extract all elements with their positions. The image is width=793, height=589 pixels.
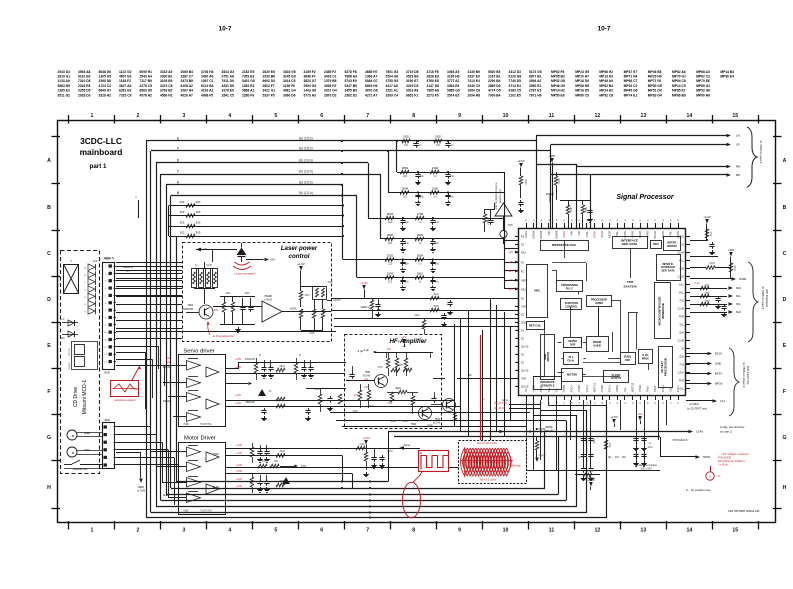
svg-text:616 mV AC 1V/div: 616 mV AC 1V/div (477, 442, 498, 445)
svg-text:+33V: +33V (728, 248, 735, 252)
svg-text:2X2: 2X2 (180, 200, 185, 204)
svg-text:7310 D5: 7310 D5 (78, 79, 91, 83)
svg-text:B: B (47, 205, 51, 211)
svg-text:+4.8V: +4.8V (235, 402, 242, 405)
svg-text:8: 8 (412, 113, 415, 119)
svg-text:TEST: TEST (653, 385, 657, 392)
svg-text:RN: RN (736, 165, 740, 169)
svg-text:3014 C5: 3014 C5 (283, 79, 296, 83)
svg-text:4159 F2: 4159 F2 (304, 70, 316, 74)
svg-text:MUTE: MUTE (661, 231, 665, 239)
svg-text:MP45 G6: MP45 G6 (624, 89, 638, 93)
svg-text:DSP: DSP (570, 343, 575, 346)
svg-text:Servo driver: Servo driver (183, 349, 214, 355)
svg-text:VSSD: VSSD (562, 385, 566, 392)
svg-text:5337 F5: 5337 F5 (263, 93, 275, 97)
svg-text:MP85 F2: MP85 F2 (672, 89, 686, 93)
svg-text:G: G (84, 311, 86, 313)
svg-text:RA: RA (622, 456, 626, 459)
svg-text:2404: 2404 (709, 262, 715, 265)
svg-text:LD: LD (62, 319, 65, 321)
svg-text:0.8V: 0.8V (388, 402, 393, 405)
svg-text:5278 F8: 5278 F8 (345, 70, 357, 74)
svg-text:VER: VER (93, 261, 98, 263)
svg-text:RA2: RA2 (521, 252, 526, 255)
svg-text:V45: V45 (570, 230, 574, 235)
svg-text:to 7806 on part 2: to 7806 on part 2 (759, 141, 763, 164)
svg-text:7353 E9: 7353 E9 (242, 75, 254, 79)
svg-text:MP80 C5: MP80 C5 (575, 93, 589, 97)
svg-text:SL+: SL+ (623, 387, 627, 392)
svg-text:11: 11 (549, 113, 555, 119)
svg-text:Mitsumi MCD-1: Mitsumi MCD-1 (82, 380, 88, 415)
svg-text:10n: 10n (450, 175, 455, 178)
svg-text:FS2: FS2 (680, 364, 685, 367)
svg-text:4936 H7: 4936 H7 (324, 84, 337, 88)
svg-text:only for digitized silence: only for digitized silence (495, 182, 498, 209)
svg-text:4301: 4301 (104, 257, 110, 261)
svg-text:MP52 G6: MP52 G6 (696, 89, 710, 93)
svg-text:Servo: Servo (404, 444, 411, 447)
svg-text:CRC: CRC (625, 359, 631, 362)
svg-text:+2.5V: +2.5V (517, 159, 525, 163)
svg-text:MP52 G8: MP52 G8 (551, 79, 565, 83)
svg-text:3CDC-LLC: 3CDC-LLC (80, 136, 122, 146)
svg-text:7740 D5: 7740 D5 (509, 79, 522, 83)
svg-text:4: 4 (228, 528, 231, 534)
svg-text:3455 B3: 3455 B3 (345, 89, 358, 93)
svg-text:-4 µF: -4 µF (363, 349, 369, 352)
svg-text:LOCK: LOCK (677, 276, 684, 279)
svg-text:PROC: PROC (642, 357, 649, 360)
svg-text:+2V: +2V (166, 362, 171, 364)
svg-text:3473 C8: 3473 C8 (160, 84, 173, 88)
svg-text:SER. DATA: SER. DATA (661, 269, 674, 272)
svg-text:ISLICE: ISLICE (521, 386, 529, 389)
svg-text:D: D (783, 297, 787, 303)
svg-text:3433 C1: 3433 C1 (324, 75, 337, 79)
svg-text:2192: 2192 (432, 166, 439, 170)
svg-text:6: 6 (320, 113, 323, 119)
svg-text:SCLK: SCLK (600, 231, 604, 238)
svg-text:3136 H9: 3136 H9 (447, 75, 460, 79)
svg-text:4981 G4: 4981 G4 (283, 89, 296, 93)
svg-text:2482: 2482 (570, 207, 573, 213)
svg-text:3005: 3005 (433, 305, 439, 308)
svg-text:to 7x05: to 7x05 (137, 490, 146, 493)
svg-text:DE_R 4V: DE_R 4V (494, 406, 505, 410)
svg-text:4-5V: 4-5V (301, 465, 306, 468)
svg-text:5773 H3: 5773 H3 (304, 93, 317, 97)
svg-text:1: 1 (91, 113, 94, 119)
svg-text:2602 F7: 2602 F7 (263, 84, 275, 88)
svg-text:VSSD: VSSD (600, 385, 604, 392)
svg-text:+4.8V: +4.8V (362, 436, 370, 440)
svg-text:GND: GND (352, 411, 357, 413)
svg-text:MP71 F6: MP71 F6 (648, 79, 662, 83)
svg-text:DATA: DATA (524, 231, 528, 238)
svg-text:from +5V: from +5V (544, 430, 554, 433)
svg-text:3387 C7: 3387 C7 (181, 75, 194, 79)
svg-text:K... for position only: K... for position only (686, 488, 711, 492)
svg-text:4272 A7: 4272 A7 (365, 93, 378, 97)
svg-text:150: 150 (436, 144, 441, 147)
svg-text:+4.8V: +4.8V (236, 444, 243, 447)
svg-text:TM = 0.2 µs/div: TM = 0.2 µs/div (479, 479, 497, 482)
svg-text:MP70 G7: MP70 G7 (672, 75, 686, 79)
svg-text:MP95 B3: MP95 B3 (551, 75, 565, 79)
svg-text:2182 E5: 2182 E5 (242, 70, 254, 74)
svg-text:7671 H6: 7671 H6 (529, 93, 542, 97)
svg-text:FOCUS: FOCUS (69, 348, 71, 356)
svg-text:TDA7073A: TDA7073A (200, 423, 212, 426)
svg-text:MD: MD (61, 338, 65, 340)
svg-text:MOTOR: MOTOR (567, 373, 577, 377)
svg-text:VDD: VDD (521, 378, 526, 381)
svg-text:RESB: RESB (608, 231, 612, 238)
svg-text:4716 F8: 4716 F8 (427, 70, 439, 74)
svg-text:7868 H3: 7868 H3 (345, 75, 358, 79)
svg-text:ADC: ADC (534, 289, 541, 293)
svg-text:MP66 H2: MP66 H2 (599, 70, 613, 74)
svg-text:Signal Processor: Signal Processor (616, 194, 674, 201)
svg-text:MP62 A6: MP62 A6 (672, 70, 686, 74)
svg-text:Motor Driver: Motor Driver (184, 436, 216, 442)
svg-text:B: B (783, 205, 787, 211)
svg-text:7602: 7602 (187, 304, 193, 307)
svg-text:DOBM: DOBM (554, 231, 558, 239)
svg-text:MP51 D4: MP51 D4 (648, 89, 662, 93)
svg-text:1196 F6: 1196 F6 (283, 84, 295, 88)
svg-text:2620 E6: 2620 E6 (263, 70, 275, 74)
svg-text:7413 E4: 7413 E4 (468, 79, 480, 83)
svg-text:15: 15 (732, 528, 738, 534)
svg-text:SCL: SCL (736, 303, 741, 306)
svg-text:3004: 3004 (433, 293, 439, 296)
svg-text:1305 G5: 1305 G5 (99, 75, 112, 79)
svg-text:5: 5 (274, 528, 277, 534)
svg-text:1265 E3: 1265 E3 (58, 89, 70, 93)
svg-text:EFAB: EFAB (592, 231, 596, 238)
svg-text:9: 9 (458, 528, 461, 534)
svg-text:10n: 10n (435, 263, 440, 266)
svg-text:= V...: = V... (716, 474, 722, 478)
svg-text:MOTO1: MOTO1 (592, 382, 596, 392)
svg-text:3751 A8: 3751 A8 (222, 75, 235, 79)
svg-text:FOC+: FOC+ (585, 385, 589, 392)
svg-text:+2V: +2V (508, 278, 513, 282)
svg-text:2869 D9: 2869 D9 (488, 84, 501, 88)
svg-text:15: 15 (732, 113, 738, 119)
svg-text:MP47 E7: MP47 E7 (624, 70, 638, 74)
svg-text:3412 D3: 3412 D3 (509, 70, 522, 74)
svg-text:LOCK: LOCK (290, 308, 297, 311)
svg-text:2247: 2247 (704, 285, 710, 287)
svg-text:E-D sensitive line!: E-D sensitive line! (213, 334, 235, 338)
svg-text:+: + (709, 475, 711, 479)
svg-text:MP90 H9: MP90 H9 (696, 93, 710, 97)
svg-text:9: 9 (458, 113, 461, 119)
svg-text:+4.8V: +4.8V (236, 464, 243, 467)
svg-text:V45: V45 (577, 230, 581, 235)
svg-text:for digital out content: for digital out content (635, 464, 657, 467)
svg-text:6849 G7: 6849 G7 (99, 89, 112, 93)
svg-text:SAA7345: SAA7345 (623, 285, 636, 289)
svg-text:3251 D6: 3251 D6 (222, 84, 235, 88)
svg-text:PROCESSOR: PROCESSOR (663, 358, 667, 376)
svg-text:+4.8V: +4.8V (360, 281, 368, 285)
svg-text:2406: 2406 (594, 438, 596, 444)
svg-text:* = 50 Hz: * = 50 Hz (718, 464, 729, 467)
svg-text:LN: LN (736, 134, 740, 138)
svg-text:3147 D8: 3147 D8 (427, 84, 440, 88)
svg-text:6120 G8: 6120 G8 (509, 75, 522, 79)
svg-text:2X2: 2X2 (180, 210, 185, 214)
svg-text:2204: 2204 (414, 315, 420, 317)
svg-text:MP68 C7: MP68 C7 (624, 79, 638, 83)
svg-text:1841 C5: 1841 C5 (222, 93, 235, 97)
svg-text:5743 E9: 5743 E9 (345, 79, 357, 83)
svg-text:3574 E5: 3574 E5 (447, 93, 459, 97)
svg-text:3273 F5: 3273 F5 (427, 93, 439, 97)
svg-text:2810: 2810 (417, 272, 424, 276)
svg-text:MOTO2: MOTO2 (630, 382, 634, 392)
svg-text:VaKD-3: VaKD-3 (361, 305, 370, 309)
svg-text:7x06: 7x06 (183, 423, 189, 426)
svg-text:2870 D2: 2870 D2 (324, 93, 337, 97)
svg-text:BC848: BC848 (433, 423, 441, 425)
svg-text:V: V (135, 195, 137, 199)
svg-text:10n: 10n (405, 242, 410, 245)
svg-text:CLAM: CLAM (677, 308, 684, 311)
svg-text:PH=5 EN=3.5: PH=5 EN=3.5 (673, 439, 688, 442)
svg-text:2x00: 2x00 (359, 443, 365, 446)
svg-text:MP14 B4: MP14 B4 (720, 70, 734, 74)
svg-text:3210: 3210 (610, 442, 612, 448)
svg-text:6963 D5: 6963 D5 (140, 89, 153, 93)
svg-text:BU (D2-b): BU (D2-b) (299, 170, 313, 174)
svg-text:DATA: DATA (562, 231, 566, 238)
svg-text:3302: 3302 (279, 365, 285, 368)
svg-text:+5V: +5V (637, 412, 642, 416)
svg-text:220: 220 (388, 241, 393, 245)
svg-text:+2V: +2V (508, 287, 513, 291)
svg-text:MP16 D5: MP16 D5 (575, 89, 589, 93)
svg-text:KILL: KILL (679, 292, 685, 295)
svg-text:MP46 E8: MP46 E8 (648, 70, 662, 74)
svg-text:3004: 3004 (395, 387, 401, 390)
svg-text:RP: RP (736, 173, 740, 177)
svg-text:7: 7 (366, 113, 369, 119)
svg-text:MP83 G4: MP83 G4 (648, 93, 662, 97)
svg-text:3930 B1: 3930 B1 (160, 75, 173, 79)
svg-text:3777 A2: 3777 A2 (447, 79, 460, 83)
svg-text:GND: GND (402, 421, 407, 423)
svg-text:BU (D2-b): BU (D2-b) (299, 147, 313, 151)
svg-text:4.3 MHz: 4.3 MHz (689, 402, 699, 406)
svg-text:4: 4 (228, 113, 231, 119)
svg-text:2748: 2748 (417, 212, 424, 216)
svg-text:BFSY: BFSY (715, 372, 722, 376)
svg-text:LP: LP (736, 143, 740, 147)
svg-text:1366 A7: 1366 A7 (365, 75, 378, 79)
svg-text:2280 F9: 2280 F9 (242, 93, 254, 97)
svg-text:SCL: SCL (679, 324, 684, 327)
svg-text:+4.3V: +4.3V (703, 215, 711, 219)
svg-text:FIX. C: FIX. C (566, 287, 573, 290)
svg-text:12: 12 (595, 528, 601, 534)
svg-text:to dig. out circuitry: to dig. out circuitry (720, 425, 745, 429)
svg-text:4774 G5: 4774 G5 (488, 89, 501, 93)
svg-text:WCLK: WCLK (653, 231, 657, 239)
svg-text:3105: 3105 (558, 178, 561, 184)
svg-text:2102 E5: 2102 E5 (509, 93, 521, 97)
svg-text:4193 A2: 4193 A2 (201, 89, 214, 93)
svg-text:3201 G4: 3201 G4 (324, 89, 337, 93)
svg-text:5174 G5: 5174 G5 (529, 70, 542, 74)
svg-text:VDD: VDD (521, 322, 526, 325)
svg-text:swingFocus search: swingFocus search (114, 399, 136, 402)
svg-text:MP94 C8: MP94 C8 (672, 79, 686, 83)
svg-text:4578 H2: 4578 H2 (140, 93, 153, 97)
svg-text:7605: 7605 (507, 224, 513, 227)
svg-text:MP13 D3: MP13 D3 (599, 75, 613, 79)
svg-text:FOC+: FOC+ (661, 385, 665, 392)
svg-text:BU (D2-b): BU (D2-b) (299, 137, 313, 141)
svg-text:3002 e33R: 3002 e33R (640, 469, 652, 471)
svg-text:2278 C5: 2278 C5 (140, 84, 153, 88)
svg-text:3494 A9: 3494 A9 (447, 70, 460, 74)
svg-text:10n: 10n (450, 196, 455, 199)
svg-text:3421 G1: 3421 G1 (263, 89, 276, 93)
svg-text:3878: 3878 (387, 212, 394, 216)
svg-text:MP89 G2: MP89 G2 (696, 84, 710, 88)
svg-text:MUX: MUX (653, 243, 659, 246)
svg-text:+2V: +2V (508, 260, 513, 264)
svg-text:2294 B4: 2294 B4 (488, 79, 501, 83)
svg-text:6692 D3: 6692 D3 (263, 79, 276, 83)
svg-text:14: 14 (686, 528, 692, 534)
svg-text:3708: 3708 (397, 365, 403, 367)
svg-text:2395 D8: 2395 D8 (99, 79, 112, 83)
svg-text:2554: 2554 (417, 254, 424, 258)
svg-text:E: E (783, 343, 787, 349)
svg-text:BCLK: BCLK (715, 352, 722, 356)
svg-text:10n: 10n (420, 175, 425, 178)
svg-text:XTAL: XTAL (585, 230, 589, 237)
svg-text:F: F (47, 389, 50, 395)
svg-text:3404: 3404 (279, 450, 285, 453)
svg-text:Servo: Servo (502, 399, 509, 402)
svg-text:5648 D6: 5648 D6 (99, 70, 112, 74)
svg-text:MP92 C8: MP92 C8 (599, 93, 613, 97)
svg-text:2302: 2302 (435, 136, 441, 139)
svg-text:6877 B1: 6877 B1 (529, 75, 542, 79)
svg-text:mainboard: mainboard (80, 147, 123, 157)
svg-text:3990 E1: 3990 E1 (529, 84, 541, 88)
svg-text:2489 F2: 2489 F2 (324, 70, 336, 74)
svg-text:5: 5 (274, 113, 277, 119)
svg-text:2819 G1: 2819 G1 (58, 75, 71, 79)
svg-text:+4.8V: +4.8V (235, 358, 242, 361)
svg-text:3864: 3864 (402, 166, 409, 170)
svg-text:7510: 7510 (435, 418, 441, 421)
svg-text:CLAM: CLAM (677, 252, 684, 255)
svg-text:3104: 3104 (525, 179, 528, 185)
svg-text:C: C (783, 251, 787, 257)
svg-text:6108 A2: 6108 A2 (181, 84, 194, 88)
svg-text:AUDIO: AUDIO (595, 302, 603, 305)
svg-text:2: 2 (137, 113, 140, 119)
svg-text:2628 E9: 2628 E9 (427, 75, 439, 79)
svg-text:+2V: +2V (401, 335, 406, 339)
svg-text:2928 D3: 2928 D3 (78, 93, 91, 97)
svg-text:3670 G6: 3670 G6 (365, 89, 378, 93)
svg-text:3X3: 3X3 (196, 221, 201, 225)
svg-text:FS2: FS2 (680, 300, 685, 303)
svg-text:11: 11 (549, 528, 555, 534)
svg-text:3846 F7: 3846 F7 (304, 75, 316, 79)
svg-text:10-7: 10-7 (597, 26, 610, 33)
svg-text:E: E (47, 343, 51, 349)
svg-text:CL4: CL4 (720, 399, 725, 403)
svg-text:3105 B9: 3105 B9 (160, 79, 173, 83)
svg-text:MP74 E1: MP74 E1 (624, 93, 638, 97)
svg-text:150: 150 (404, 144, 409, 147)
svg-text:10n: 10n (435, 221, 440, 224)
svg-text:(UP interface): (UP interface) (765, 289, 769, 307)
svg-text:part 1: part 1 (90, 163, 107, 170)
svg-text:3255 D5: 3255 D5 (78, 89, 91, 93)
svg-text:3544: 3544 (402, 187, 409, 191)
svg-text:3919 A6: 3919 A6 (406, 89, 419, 93)
svg-text:2543 A4: 2543 A4 (140, 75, 153, 79)
svg-text:1133 A9: 1133 A9 (58, 79, 70, 83)
svg-text:3627 A5: 3627 A5 (119, 84, 132, 88)
svg-text:3430 A6: 3430 A6 (201, 75, 214, 79)
svg-text:on part 2: on part 2 (720, 430, 732, 434)
svg-text:2993: 2993 (417, 233, 424, 237)
svg-text:3863 H5: 3863 H5 (58, 84, 71, 88)
svg-text:6893 H4: 6893 H4 (365, 84, 378, 88)
svg-text:RAD-: RAD- (646, 386, 650, 392)
svg-text:POR: POR (679, 380, 684, 383)
svg-text:3604: 3604 (225, 293, 231, 295)
svg-text:4658 H7: 4658 H7 (365, 70, 378, 74)
svg-text:MP16 D9: MP16 D9 (575, 79, 589, 83)
svg-text:3145 G9: 3145 G9 (283, 75, 296, 79)
svg-text:10n: 10n (405, 281, 410, 284)
svg-text:D: D (47, 297, 51, 303)
svg-text:4724 C4: 4724 C4 (99, 84, 112, 88)
svg-text:RA2: RA2 (521, 289, 526, 292)
svg-text:FRONT: FRONT (546, 351, 550, 361)
svg-text:SDA: SDA (679, 332, 684, 335)
svg-text:G: G (47, 435, 51, 441)
svg-text:FOCUS: FOCUS (245, 357, 255, 361)
svg-text:3534 G3: 3534 G3 (222, 70, 235, 74)
svg-text:10n: 10n (420, 196, 425, 199)
svg-text:3303 G6: 3303 G6 (283, 70, 296, 74)
svg-text:4566 H1: 4566 H1 (160, 93, 173, 97)
svg-text:100n: 100n (647, 446, 653, 449)
svg-text:1052 E3: 1052 E3 (242, 84, 254, 88)
svg-text:CLAM: CLAM (677, 340, 684, 343)
svg-text:1122 G2: 1122 G2 (119, 70, 132, 74)
svg-text:9BSB: 9BSB (104, 372, 111, 375)
svg-text:a Laser damaged !: a Laser damaged ! (234, 272, 256, 276)
svg-text:6095 H1: 6095 H1 (140, 70, 153, 74)
